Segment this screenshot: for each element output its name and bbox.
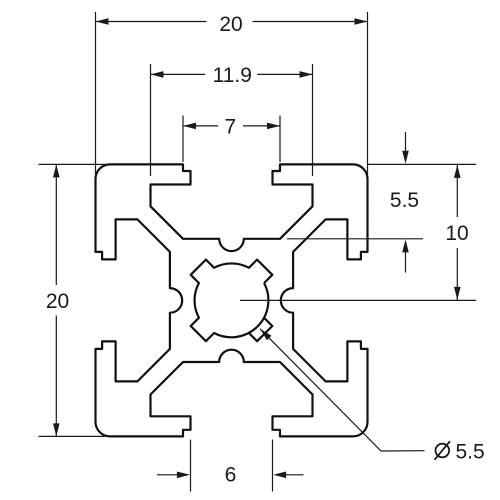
bottom face line extended left <box>39 435 110 437</box>
arrowhead 11.9 left <box>151 71 164 78</box>
arrowhead 20-top left <box>96 18 109 25</box>
extension line 6 right <box>272 440 274 492</box>
arrow shaft 5.5 upper <box>405 132 407 152</box>
arrow shaft 6 left <box>157 474 178 476</box>
arrowhead 7 right <box>267 123 280 130</box>
svg-text:5.5: 5.5 <box>390 189 419 212</box>
arrowhead 11.9 right <box>300 71 313 78</box>
dimension line 20 top <box>96 21 207 23</box>
extension line top-20 left <box>95 12 97 176</box>
notch rectangle at 315 degrees over continuous arc <box>249 318 272 341</box>
arrowhead 5.5 down <box>402 151 409 164</box>
arrowhead 7 left <box>183 123 196 130</box>
top face line extended left <box>39 163 110 165</box>
dimension line 10 right <box>456 164 458 217</box>
center bore with four notches <box>191 260 273 342</box>
extension line 7 left <box>182 116 184 163</box>
arrowhead leader <box>260 329 272 341</box>
svg-text:10: 10 <box>445 222 468 245</box>
svg-text:20: 20 <box>46 290 69 313</box>
arrowhead 20-left down <box>53 423 60 436</box>
horizontal centerline extended right <box>240 299 476 301</box>
arrow shaft 5.5 lower <box>405 251 407 273</box>
dimension line 7 <box>183 125 218 127</box>
leader line to bore <box>260 329 425 451</box>
extension line top-20 right <box>367 12 369 176</box>
arrowhead 20-left up <box>53 164 60 177</box>
svg-text:6: 6 <box>225 463 237 486</box>
extension line 11.9 right <box>312 64 314 176</box>
top face line extended right <box>368 163 476 165</box>
arrowhead 6 left <box>273 472 286 479</box>
extrusion outer profile contour <box>96 164 368 436</box>
svg-text:11.9: 11.9 <box>213 64 252 87</box>
arrowhead 6 right <box>177 472 190 479</box>
diameter symbol of leader note <box>435 441 451 460</box>
arrowhead 10 down <box>454 287 461 300</box>
extension line 7 right <box>279 116 281 163</box>
arrowhead 5.5 up <box>402 239 409 252</box>
extension line 11.9 left <box>150 64 152 176</box>
extension line 6 left <box>190 440 192 492</box>
arrow shaft 6 right <box>285 474 304 476</box>
svg-text:7: 7 <box>224 115 236 138</box>
arrowhead 10 up <box>454 165 461 178</box>
slot floor line extended right <box>287 238 423 240</box>
dimension line 20 left <box>55 164 57 285</box>
dimension line 11.9 <box>151 73 206 75</box>
svg-text:5.5: 5.5 <box>456 440 485 463</box>
svg-text:20: 20 <box>219 13 242 36</box>
arrowhead 20-top right <box>355 18 368 25</box>
